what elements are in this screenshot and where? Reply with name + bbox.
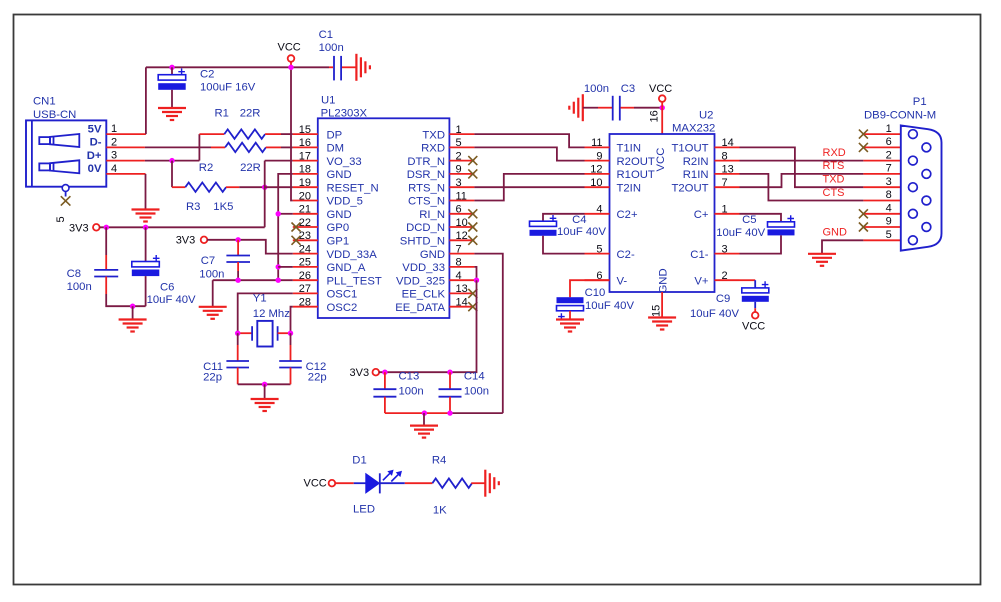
wire U2 V- to C10 bbox=[570, 280, 610, 297]
svg-text:C8: C8 bbox=[67, 268, 81, 280]
svg-text:GP1: GP1 bbox=[327, 236, 350, 248]
svg-text:T2IN: T2IN bbox=[617, 182, 641, 194]
svg-text:PL2303X: PL2303X bbox=[321, 107, 368, 119]
svg-text:3: 3 bbox=[886, 176, 892, 188]
svg-text:MAX232: MAX232 bbox=[672, 122, 715, 134]
svg-text:R2: R2 bbox=[199, 162, 213, 174]
U1 no-connect X pin10 bbox=[468, 223, 477, 232]
svg-text:6: 6 bbox=[456, 204, 462, 216]
capacitor C2 top lead bbox=[171, 67, 173, 74]
wire U1 RTS_N to U2 T2IN bbox=[474, 186, 584, 188]
svg-text:DSR_N: DSR_N bbox=[407, 169, 445, 181]
svg-text:GND: GND bbox=[823, 227, 848, 239]
capacitor C12 top lead bbox=[290, 333, 292, 345]
ground below C13/C14 bbox=[410, 426, 438, 438]
terminal VCC top bbox=[288, 55, 295, 62]
C3 labels bbox=[584, 83, 635, 95]
svg-text:P1: P1 bbox=[913, 96, 927, 108]
junction R3 node bbox=[262, 185, 267, 190]
LED arrow 1 bbox=[383, 470, 393, 480]
svg-text:C10: C10 bbox=[585, 287, 606, 299]
svg-text:24: 24 bbox=[299, 243, 311, 255]
svg-text:100n: 100n bbox=[399, 386, 424, 398]
svg-text:1K5: 1K5 bbox=[213, 201, 233, 213]
junction ground rail C8/C6 bbox=[130, 304, 135, 309]
diode D1 cathode lead bbox=[380, 482, 405, 484]
wire U2 C2+ to C4 bbox=[543, 214, 585, 221]
resistor R1 zigzag bbox=[224, 129, 265, 138]
svg-text:5: 5 bbox=[456, 137, 462, 149]
capacitor C8 top lead bbox=[105, 227, 107, 255]
svg-text:PLL_TEST: PLL_TEST bbox=[327, 275, 382, 287]
svg-text:GND: GND bbox=[420, 249, 445, 261]
wire C4 to U2 C2- bbox=[543, 236, 585, 254]
svg-text:R2OUT: R2OUT bbox=[617, 156, 655, 168]
C8 labels bbox=[67, 268, 92, 293]
svg-text:C4: C4 bbox=[572, 214, 586, 226]
wire R3 to junction bbox=[239, 186, 264, 188]
junction D+ bbox=[169, 158, 174, 163]
ground below U2 pin15 bbox=[648, 318, 676, 330]
junction C13 top bbox=[382, 370, 387, 375]
svg-text:8: 8 bbox=[886, 189, 892, 201]
svg-text:18: 18 bbox=[299, 164, 311, 176]
capacitor C10 bottom lead bbox=[569, 311, 571, 320]
U1 no-connect X pin12 bbox=[468, 236, 477, 245]
svg-text:9: 9 bbox=[886, 216, 892, 228]
wire U1 pin18 GND down bbox=[278, 174, 293, 280]
svg-text:100n: 100n bbox=[319, 42, 344, 54]
svg-text:Y1: Y1 bbox=[253, 293, 267, 305]
LED arrow 2 bbox=[391, 472, 401, 482]
C5 labels bbox=[716, 214, 765, 239]
junction pin25 bbox=[276, 264, 281, 269]
DB9 pin6 stub bbox=[863, 146, 922, 148]
resistor R2 right pin bbox=[266, 146, 281, 148]
svg-text:U1: U1 bbox=[321, 94, 335, 106]
svg-text:4: 4 bbox=[886, 203, 892, 215]
ground below CN1 pin4 bbox=[132, 210, 160, 222]
svg-text:RTS: RTS bbox=[823, 160, 845, 172]
capacitor C7 bottom lead bbox=[237, 262, 239, 271]
capacitor C6 electrolytic plates bbox=[132, 255, 160, 276]
CN1 shield circle bbox=[62, 185, 69, 192]
svg-text:13: 13 bbox=[456, 283, 468, 295]
svg-text:VDD_33: VDD_33 bbox=[402, 262, 445, 274]
junction VDD_325 bbox=[474, 278, 479, 283]
R4 labels bbox=[432, 454, 447, 516]
CN1 pin 3 stub bbox=[106, 160, 145, 162]
diode D1 cathode bar bbox=[379, 473, 381, 493]
svg-text:22p: 22p bbox=[203, 371, 222, 383]
R2 labels bbox=[199, 162, 261, 174]
svg-text:14: 14 bbox=[722, 137, 734, 149]
wire U1 pin27 OSC1 bbox=[238, 293, 293, 333]
U2 right pin numbers bbox=[722, 137, 734, 282]
svg-text:C2+: C2+ bbox=[617, 209, 638, 221]
terminal 3V3 at C13 bbox=[373, 369, 380, 376]
svg-text:C2-: C2- bbox=[617, 249, 635, 261]
svg-text:RI_N: RI_N bbox=[419, 209, 445, 221]
svg-text:2: 2 bbox=[886, 149, 892, 161]
C7 labels bbox=[199, 255, 224, 280]
U2 right pin names bbox=[671, 143, 708, 288]
svg-text:3V3: 3V3 bbox=[69, 223, 89, 235]
ground stem C13/C14 bbox=[423, 413, 425, 425]
svg-text:100n: 100n bbox=[67, 281, 92, 293]
U1 no-connect X pin13 bbox=[468, 289, 477, 298]
terminal 3V3 left bbox=[93, 224, 100, 231]
junction C14 bottom bbox=[447, 410, 452, 415]
svg-text:OSC2: OSC2 bbox=[327, 302, 358, 314]
svg-text:10: 10 bbox=[456, 217, 468, 229]
resistor R3 left pin bbox=[172, 186, 185, 188]
svg-text:15: 15 bbox=[299, 124, 311, 136]
U2 left pin numbers bbox=[590, 137, 602, 282]
junction top rail at C2 bbox=[169, 65, 174, 70]
ground right-facing after R4 bbox=[485, 470, 499, 497]
svg-text:DCD_N: DCD_N bbox=[406, 222, 445, 234]
C1 labels bbox=[319, 29, 344, 54]
DB9 pin9 stub bbox=[863, 226, 922, 228]
no-connect X DB9 pin9 bbox=[859, 223, 868, 232]
capacitor C9 top lead bbox=[754, 280, 756, 288]
svg-text:26: 26 bbox=[299, 270, 311, 282]
capacitor C6 top lead bbox=[145, 227, 147, 261]
capacitor C11 plates bbox=[226, 361, 249, 368]
CN1 pin 4 stub bbox=[106, 173, 145, 175]
wire U2 V+ to C9 bbox=[740, 279, 756, 281]
svg-text:17: 17 bbox=[299, 150, 311, 162]
wire junction to U1 pin19 bbox=[265, 186, 293, 188]
svg-text:R2IN: R2IN bbox=[683, 156, 709, 168]
svg-text:C14: C14 bbox=[464, 371, 485, 383]
wire 3V3 rail bbox=[99, 226, 264, 228]
CN1 contact blade upper bbox=[39, 134, 79, 147]
crystal Y1 right electrode pin bbox=[278, 332, 291, 334]
CN1 pin 1 stub bbox=[106, 133, 146, 135]
resistor R1 right pin bbox=[265, 133, 281, 135]
U1 no-connect X pin9 bbox=[468, 169, 477, 178]
wire LED to R4 bbox=[405, 482, 433, 484]
svg-text:16: 16 bbox=[649, 110, 661, 122]
svg-text:C3: C3 bbox=[621, 83, 635, 95]
svg-text:4: 4 bbox=[596, 204, 602, 216]
svg-text:2: 2 bbox=[456, 150, 462, 162]
U2 pin15 stub bbox=[661, 292, 663, 317]
svg-text:V+: V+ bbox=[694, 275, 709, 287]
capacitor C7 top lead bbox=[237, 240, 239, 256]
wire R2 to U1 pin16 bbox=[281, 146, 293, 148]
svg-text:TXD: TXD bbox=[823, 174, 845, 186]
wire U2 T2OUT to DB9 pin7 RTS bbox=[740, 174, 864, 187]
svg-text:CN1: CN1 bbox=[33, 96, 56, 108]
svg-text:T2OUT: T2OUT bbox=[671, 182, 708, 194]
wire 3V3 to C7/pin24 bbox=[207, 240, 293, 254]
DB9 pin numbers bbox=[886, 123, 892, 241]
resistor R3 zigzag bbox=[185, 183, 226, 192]
wire D+ junction down to R3 bbox=[171, 161, 173, 188]
junction pin26 bbox=[276, 278, 281, 283]
svg-text:C1: C1 bbox=[319, 29, 333, 41]
no-connect X DB9 pin1 bbox=[859, 130, 868, 139]
svg-text:VDD_33A: VDD_33A bbox=[327, 249, 378, 261]
svg-text:5V: 5V bbox=[88, 123, 102, 135]
capacitor C7 plates bbox=[226, 256, 250, 263]
U2 left pin names bbox=[617, 143, 655, 288]
wire U1 VDD_33 to VDD_325 node bbox=[474, 267, 476, 280]
svg-text:8: 8 bbox=[722, 150, 728, 162]
svg-text:13: 13 bbox=[722, 164, 734, 176]
svg-text:EE_DATA: EE_DATA bbox=[395, 302, 445, 314]
wire D+ row bbox=[145, 160, 200, 162]
capacitor C3 right pin bbox=[621, 107, 635, 109]
no-connect X DB9 pin6 bbox=[859, 143, 868, 152]
capacitor C1 left pin bbox=[329, 66, 333, 68]
wire R1 vertical to D+ bbox=[198, 134, 200, 161]
ground below C10 bbox=[556, 320, 584, 332]
svg-text:7: 7 bbox=[886, 163, 892, 175]
wire VCC circle to rail bbox=[290, 62, 292, 68]
svg-text:1: 1 bbox=[722, 204, 728, 216]
crystal Y1 left electrode bbox=[251, 326, 253, 341]
svg-text:9: 9 bbox=[456, 164, 462, 176]
capacitor C6 bottom lead bbox=[145, 276, 147, 306]
wire C5 to U2 C1- bbox=[740, 235, 782, 253]
svg-text:1: 1 bbox=[456, 124, 462, 136]
svg-text:16: 16 bbox=[299, 137, 311, 149]
capacitor C1 right pin bbox=[342, 66, 356, 68]
wire VDD node down to C13/C14 rail bbox=[450, 280, 477, 372]
wire VCC to LED bbox=[335, 482, 354, 484]
resistor R4 zigzag bbox=[432, 479, 472, 488]
resistor R3 right pin bbox=[226, 186, 239, 188]
svg-text:T1OUT: T1OUT bbox=[671, 143, 708, 155]
CN1 shield stem bbox=[65, 191, 67, 196]
svg-text:GP0: GP0 bbox=[327, 222, 350, 234]
svg-text:C+: C+ bbox=[694, 209, 709, 221]
U1 no-connect X pin23 bbox=[292, 236, 301, 245]
P1 ref/value labels bbox=[864, 96, 936, 122]
svg-text:OSC1: OSC1 bbox=[327, 289, 358, 301]
svg-text:10uF 40V: 10uF 40V bbox=[147, 294, 196, 306]
svg-text:100uF 16V: 100uF 16V bbox=[200, 82, 256, 94]
svg-text:20: 20 bbox=[299, 190, 311, 202]
ground left-facing before C3 bbox=[569, 94, 583, 121]
capacitor C3 plates bbox=[613, 96, 620, 121]
svg-text:3: 3 bbox=[456, 177, 462, 189]
svg-text:28: 28 bbox=[299, 297, 311, 309]
U1 no-connect X pin2 bbox=[468, 156, 477, 165]
svg-text:0V: 0V bbox=[88, 163, 102, 175]
svg-text:R3: R3 bbox=[186, 201, 200, 213]
junction crystal ground rail bbox=[262, 382, 267, 387]
capacitor C11 top lead bbox=[237, 333, 239, 345]
terminal VCC at C3 bbox=[659, 95, 666, 102]
svg-text:5: 5 bbox=[596, 243, 602, 255]
DB9 pin stubs connected bbox=[863, 161, 922, 241]
svg-text:10uF 40V: 10uF 40V bbox=[585, 300, 634, 312]
capacitor C13 bottom lead bbox=[384, 397, 386, 413]
svg-text:3: 3 bbox=[722, 243, 728, 255]
capacitor C10 electrolytic plates bbox=[557, 297, 584, 320]
junction VCC node bbox=[660, 105, 665, 110]
capacitor C2 bottom lead bbox=[171, 90, 173, 108]
CN1 ref/value labels bbox=[33, 96, 76, 121]
crystal Y1 body bbox=[257, 321, 272, 347]
svg-text:VCC: VCC bbox=[304, 477, 327, 489]
svg-text:VCC: VCC bbox=[649, 83, 672, 95]
junction ground stem C13/C14 bbox=[422, 410, 427, 415]
wire 3V3 to C13/C14 top rail bbox=[379, 371, 450, 373]
ground below crystal bbox=[251, 399, 279, 411]
svg-text:C7: C7 bbox=[201, 255, 215, 267]
CN1 contact blade lower bbox=[39, 160, 79, 173]
svg-text:DTR_N: DTR_N bbox=[407, 156, 445, 168]
capacitor C1 plates bbox=[334, 56, 341, 81]
C12 labels bbox=[306, 361, 327, 384]
svg-text:RXD: RXD bbox=[823, 147, 846, 159]
svg-text:12: 12 bbox=[456, 230, 468, 242]
svg-text:VDD_325: VDD_325 bbox=[396, 275, 445, 287]
junction crystal left bbox=[235, 331, 240, 336]
junction C7 top bbox=[235, 237, 240, 242]
wire VCC drop to U1 pin20 bbox=[291, 67, 293, 200]
DB9 pin circles column B bbox=[922, 143, 931, 231]
connector P1 DB9 body bbox=[901, 125, 942, 250]
svg-text:100n: 100n bbox=[464, 386, 489, 398]
svg-text:10uF 40V: 10uF 40V bbox=[690, 308, 739, 320]
wire U1 pin21 GND vertical bbox=[278, 213, 293, 215]
svg-text:C5: C5 bbox=[742, 214, 756, 226]
svg-text:RTS_N: RTS_N bbox=[408, 182, 445, 194]
junction crystal right bbox=[288, 331, 293, 336]
svg-text:22R: 22R bbox=[240, 162, 261, 174]
junction C7 bottom bbox=[235, 278, 240, 283]
svg-text:12: 12 bbox=[590, 164, 602, 176]
svg-text:T1IN: T1IN bbox=[617, 143, 641, 155]
wire U1 pin28 OSC2 bbox=[291, 307, 293, 334]
U1 ref/value labels bbox=[321, 94, 368, 119]
svg-text:RESET_N: RESET_N bbox=[327, 182, 379, 194]
capacitor C14 bottom lead bbox=[449, 397, 451, 413]
capacitor C2 electrolytic plates bbox=[158, 68, 186, 89]
svg-text:12 Mhz: 12 Mhz bbox=[253, 308, 290, 320]
capacitor C4 electrolytic plates bbox=[530, 215, 557, 236]
wire to U1 pin25 bbox=[278, 266, 293, 268]
svg-text:DB9-CONN-M: DB9-CONN-M bbox=[864, 109, 936, 121]
svg-text:4: 4 bbox=[456, 270, 462, 282]
C14 labels bbox=[464, 371, 489, 398]
svg-text:22p: 22p bbox=[308, 371, 327, 383]
wire GND rail under C7 bbox=[213, 279, 293, 281]
svg-text:14: 14 bbox=[456, 297, 468, 309]
svg-text:8: 8 bbox=[456, 257, 462, 269]
U1 right pin numbers bbox=[456, 124, 468, 309]
wire U2 C+ to C5 bbox=[740, 214, 782, 222]
svg-text:3V3: 3V3 bbox=[176, 234, 196, 246]
wire vertical VO_33 to 3V3 rail bbox=[264, 161, 266, 228]
connector CN1 USB-CN body bbox=[26, 120, 106, 186]
resistor R1 left pin bbox=[199, 133, 224, 135]
DB9 pin4 stub bbox=[863, 213, 908, 215]
crystal Y1 left electrode pin bbox=[238, 332, 252, 334]
junction C14 top bbox=[447, 370, 452, 375]
svg-text:2: 2 bbox=[722, 270, 728, 282]
wire VCC vertical to top rail bbox=[145, 67, 147, 134]
junction 3V3 at C6 bbox=[143, 225, 148, 230]
capacitor C11 bottom lead bbox=[237, 368, 239, 385]
U1 no-connect X pin14 bbox=[468, 302, 477, 311]
svg-text:21: 21 bbox=[299, 204, 311, 216]
D1 labels bbox=[352, 454, 375, 515]
svg-text:LED: LED bbox=[353, 504, 375, 516]
capacitor C8 bottom lead bbox=[105, 277, 107, 295]
wire D- to R2 bbox=[145, 146, 211, 148]
wire U1 TXD to U2 T1IN bbox=[474, 134, 584, 147]
CN1 shield no-connect X bbox=[61, 196, 71, 205]
svg-text:DM: DM bbox=[327, 143, 345, 155]
svg-text:V-: V- bbox=[617, 275, 628, 287]
DB9 pin circles column A bbox=[909, 130, 918, 245]
ground right-facing after C1 bbox=[356, 54, 370, 81]
wire R1 to U1 pin15 bbox=[281, 133, 293, 135]
ground stem crystal bbox=[264, 384, 266, 399]
transistor U2 MAX232 body bbox=[610, 134, 715, 292]
junction 3V3 at C8 bbox=[104, 225, 109, 230]
svg-text:VDD_5: VDD_5 bbox=[327, 196, 363, 208]
wire GND to DB9 pin5 bbox=[822, 240, 863, 253]
svg-text:RXD: RXD bbox=[421, 143, 445, 155]
svg-text:25: 25 bbox=[299, 257, 311, 269]
svg-text:C13: C13 bbox=[399, 371, 420, 383]
capacitor C12 plates bbox=[279, 361, 302, 368]
terminal 3V3 mid bbox=[201, 237, 208, 244]
svg-text:GND: GND bbox=[327, 209, 352, 221]
svg-text:VO_33: VO_33 bbox=[327, 156, 362, 168]
junction pin21 bbox=[276, 211, 281, 216]
CN1 pin numbers 1-4 bbox=[111, 123, 117, 175]
svg-text:DP: DP bbox=[327, 129, 343, 141]
U1 no-connect X pin6 bbox=[468, 209, 477, 218]
svg-text:USB-CN: USB-CN bbox=[33, 109, 76, 121]
R2 left pin bbox=[211, 146, 225, 148]
ground below DB9 bbox=[808, 254, 836, 266]
terminal VCC at LED bbox=[329, 480, 336, 487]
U2 ref/value labels bbox=[672, 110, 715, 135]
svg-text:VCC: VCC bbox=[278, 42, 301, 54]
svg-text:GND: GND bbox=[658, 268, 670, 293]
svg-text:GND: GND bbox=[327, 169, 352, 181]
ground below C7 bbox=[199, 307, 227, 319]
svg-text:3V3: 3V3 bbox=[350, 367, 370, 379]
svg-text:1K: 1K bbox=[433, 505, 447, 517]
wire VCC top rail bbox=[146, 66, 329, 68]
diode D1 triangle bbox=[366, 474, 380, 493]
svg-text:100n: 100n bbox=[584, 83, 609, 95]
svg-text:D1: D1 bbox=[352, 454, 366, 466]
svg-text:R1IN: R1IN bbox=[683, 169, 709, 181]
svg-text:19: 19 bbox=[299, 177, 311, 189]
wire U2 R2IN to DB9 pin2 RXD bbox=[740, 160, 864, 162]
DB9 pin1 stub bbox=[863, 133, 908, 135]
capacitor C14 plates bbox=[439, 389, 462, 397]
svg-text:10uF 40V: 10uF 40V bbox=[716, 227, 765, 239]
C9 labels bbox=[690, 293, 739, 320]
svg-text:11: 11 bbox=[456, 190, 467, 202]
svg-text:10: 10 bbox=[590, 177, 602, 189]
capacitor C3 left pin bbox=[583, 107, 598, 109]
